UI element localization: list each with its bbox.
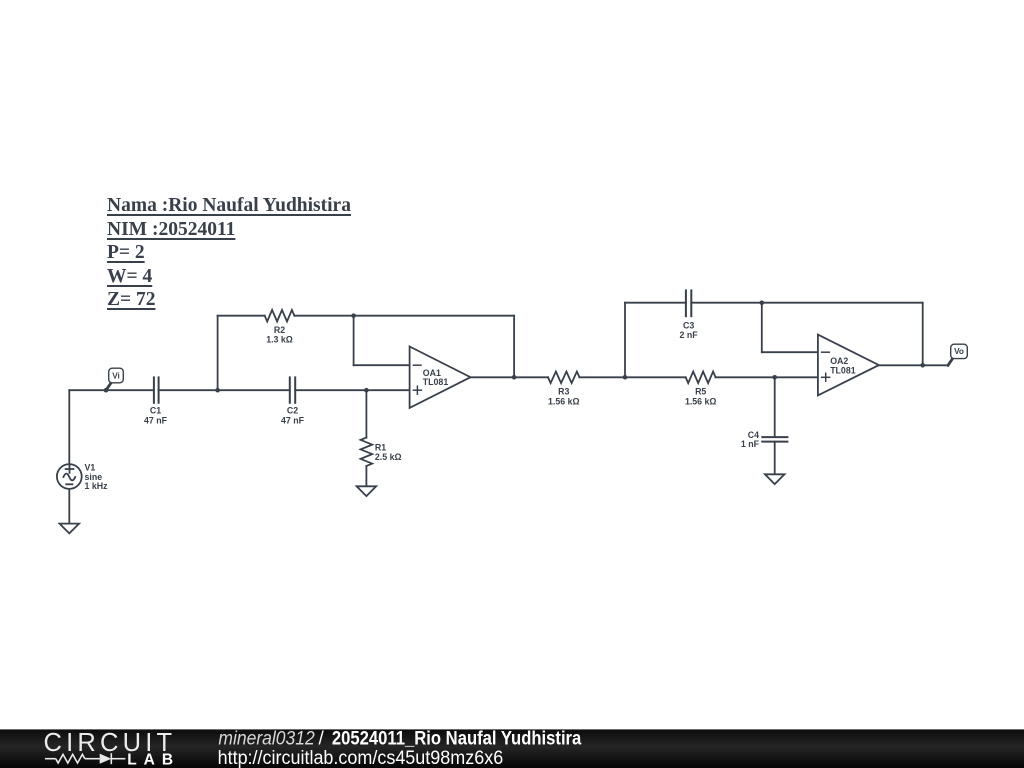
footer bar background (0, 729, 1024, 768)
svg-text:OA2: OA2 (830, 356, 848, 366)
capacitor C1 (144, 377, 168, 425)
resistor R3 (548, 372, 580, 407)
CircuitLab logo resistor-diode glyph (45, 753, 126, 764)
svg-text:R5: R5 (695, 387, 706, 397)
junction: feedback branch on input net (215, 388, 220, 393)
wire input net: corner to C1 (69, 389, 154, 391)
svg-text:R3: R3 (558, 387, 569, 397)
svg-text:R1: R1 (375, 443, 386, 453)
wire junction down to R1 (365, 390, 367, 437)
wire V1 top up to input net (68, 390, 70, 464)
title block text (107, 194, 351, 312)
wire R2 to feedback right corner (294, 315, 514, 317)
net flag Vo (948, 344, 967, 365)
resistor R5 (685, 372, 717, 407)
svg-text:2.5 kΩ: 2.5 kΩ (375, 452, 402, 462)
junction: R1 branch (364, 388, 369, 393)
svg-text:TL081: TL081 (830, 366, 856, 376)
svg-text:Vo: Vo (954, 347, 964, 356)
svg-text:Vi: Vi (112, 371, 120, 380)
svg-text:http://circuitlab.com/cs45ut98: http://circuitlab.com/cs45ut98mz6x6 (218, 748, 504, 768)
wire C4 to ground (774, 442, 776, 475)
capacitor C4 (741, 430, 787, 449)
wire R5 to OA2 noninverting input (716, 376, 818, 378)
svg-text:C1: C1 (150, 406, 161, 416)
svg-text:/: / (319, 728, 325, 749)
wire V1 bottom to ground (68, 489, 70, 524)
junction: C3 branch (623, 375, 628, 380)
wire feedback riser left (217, 316, 219, 391)
svg-text:1.56 kΩ: 1.56 kΩ (685, 396, 717, 406)
svg-text:2 nF: 2 nF (680, 330, 699, 340)
capacitor C3 (680, 290, 699, 340)
wire feedback right riser to output (922, 303, 924, 366)
svg-text:TL081: TL081 (423, 377, 449, 387)
wire top to C3 (625, 302, 686, 304)
wire C3 to right corner (691, 302, 922, 304)
wire down to C4 (774, 377, 776, 437)
wire R3 to R5 (580, 376, 686, 378)
wire top net to R2 (218, 315, 265, 317)
svg-text:47 nF: 47 nF (281, 416, 305, 426)
svg-text:mineral0312: mineral0312 (218, 728, 315, 749)
junction: feedback tap on output (512, 375, 517, 380)
wire feedback right riser (513, 316, 515, 378)
resistor R2 (265, 310, 295, 345)
svg-text:1.56 kΩ: 1.56 kΩ (548, 396, 580, 406)
wire OA2 output to Vo (879, 364, 948, 366)
voltage source V1 (57, 463, 108, 491)
junction: feedback tap on OA2 output (920, 363, 925, 368)
svg-text:1 kHz: 1 kHz (85, 481, 109, 491)
svg-text:47 nF: 47 nF (144, 416, 168, 426)
svg-text:20524011_Rio Naufal Yudhistira: 20524011_Rio Naufal Yudhistira (332, 728, 582, 749)
svg-text:C3: C3 (683, 320, 694, 330)
svg-text:1 nF: 1 nF (741, 439, 760, 449)
op-amp OA1 TL081 (410, 347, 471, 408)
op-amp OA2 TL081 (818, 335, 879, 396)
junction: C4 branch (772, 375, 777, 380)
svg-text:C2: C2 (287, 406, 298, 416)
wire R1 to ground (365, 466, 367, 486)
ground below C4 (765, 474, 785, 484)
wire OA1 output to R3 (471, 376, 549, 378)
svg-text:LAB: LAB (127, 752, 180, 768)
resistor R1 (361, 438, 402, 467)
junction: inverting input branch (351, 313, 356, 318)
wire down to OA1 inverting input (353, 316, 355, 366)
wire C2 to OA1 noninverting input (295, 389, 409, 391)
capacitor C2 (281, 377, 305, 425)
ground below V1 (60, 524, 80, 534)
wire C3 riser left (624, 303, 626, 378)
wire C1 to C2 (159, 389, 290, 391)
junction: OA2 inverting branch (760, 300, 765, 305)
net flag Vi (106, 368, 123, 390)
svg-text:1.3 kΩ: 1.3 kΩ (266, 335, 293, 345)
wire down to OA2 inverting input (761, 303, 763, 353)
svg-text:R2: R2 (274, 325, 285, 335)
junction: Vi tap on input net (104, 388, 109, 393)
ground below R1 (357, 486, 377, 496)
